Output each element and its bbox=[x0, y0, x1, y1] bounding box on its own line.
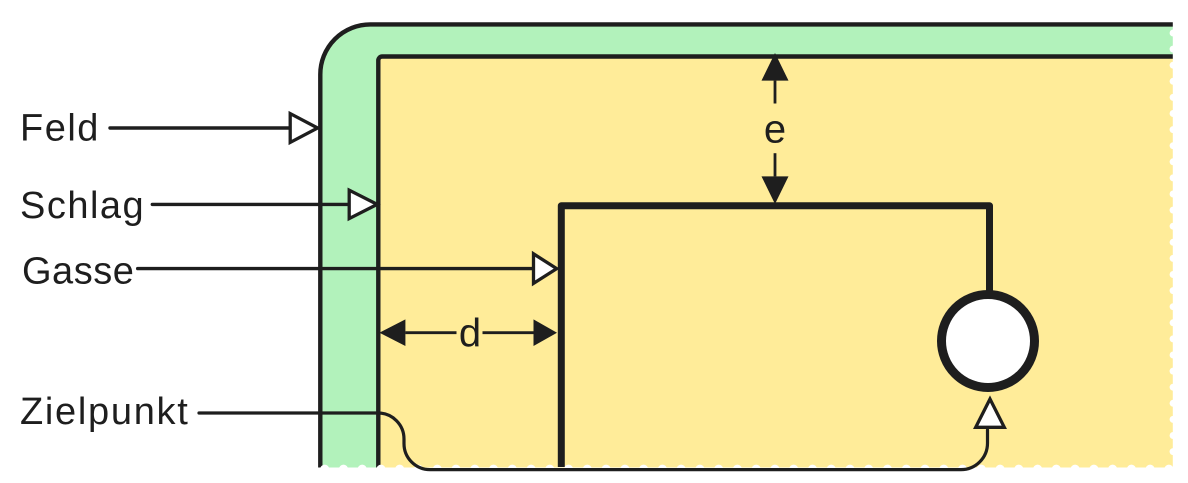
Feld arrowhead bbox=[290, 114, 317, 143]
dimension d: right segment bbox=[483, 331, 534, 334]
dimension e: line lower segment bbox=[774, 153, 777, 176]
dimension e: top arrow bbox=[762, 53, 789, 81]
torn edge dots bottom bbox=[320, 465, 1173, 474]
field (Feld) outer rounded region, green bbox=[320, 24, 1188, 483]
Schlag arrowhead bbox=[349, 190, 377, 218]
Feld arrow line bbox=[110, 126, 291, 129]
torn edge dots right bbox=[1170, 30, 1177, 456]
dimension e: line upper segment bbox=[774, 81, 777, 104]
Gasse arrow line bbox=[138, 267, 534, 270]
plot (Schlag) inner region, yellow bbox=[378, 57, 1188, 483]
svg-text:d: d bbox=[459, 311, 481, 355]
Schlag arrow line bbox=[152, 203, 349, 206]
target circle (Zielpunkt) bbox=[942, 295, 1035, 388]
svg-text:Schlag: Schlag bbox=[20, 185, 145, 227]
torn edge: bottom cover bbox=[0, 468, 1188, 483]
Gasse arrowhead bbox=[534, 254, 557, 284]
svg-text:Feld: Feld bbox=[20, 107, 100, 149]
svg-text:Gasse: Gasse bbox=[22, 251, 134, 293]
dimension d: left segment bbox=[405, 331, 456, 334]
svg-text:Zielpunkt: Zielpunkt bbox=[20, 391, 190, 433]
dimension d: right arrow bbox=[534, 319, 558, 346]
tramline (Gasse) thick path bbox=[561, 206, 989, 467]
dimension d: left arrow bbox=[380, 319, 406, 346]
torn edge: right cover bbox=[1173, 0, 1188, 483]
svg-text:e: e bbox=[764, 107, 786, 151]
Zielpunkt leader path bbox=[199, 413, 988, 470]
dimension e: bottom arrow bbox=[762, 176, 789, 204]
Zielpunkt arrowhead under circle bbox=[976, 399, 1005, 427]
